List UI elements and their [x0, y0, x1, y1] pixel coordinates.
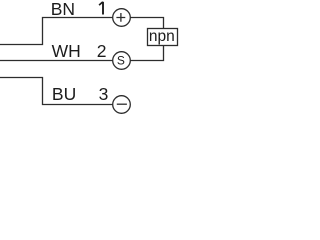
plus symbol: [116, 13, 125, 22]
svg-text:npn: npn: [149, 28, 175, 45]
svg-text:BU: BU: [52, 84, 76, 104]
wire BN pin1 (left stub, riser, top run): [0, 18, 113, 45]
pin number 1: [99, 2, 103, 15]
npn transistor output box: [148, 29, 178, 46]
svg-text:3: 3: [99, 84, 109, 104]
supply plus terminal circle: [113, 9, 131, 27]
wire BU pin3 (left stub, drop, bottom run): [0, 78, 113, 105]
svg-text:2: 2: [97, 41, 107, 61]
minus symbol: [117, 103, 127, 105]
svg-text:WH: WH: [52, 41, 81, 61]
wire WH pin2 (signal line): [0, 60, 113, 62]
svg-text:BN: BN: [51, 0, 75, 19]
wire npn box bottom down to signal line: [130, 46, 163, 61]
output S terminal circle: [113, 52, 131, 70]
svg-text:S: S: [117, 53, 125, 67]
supply minus terminal circle: [113, 96, 131, 114]
wire from plus terminal to npn box top: [130, 18, 163, 29]
